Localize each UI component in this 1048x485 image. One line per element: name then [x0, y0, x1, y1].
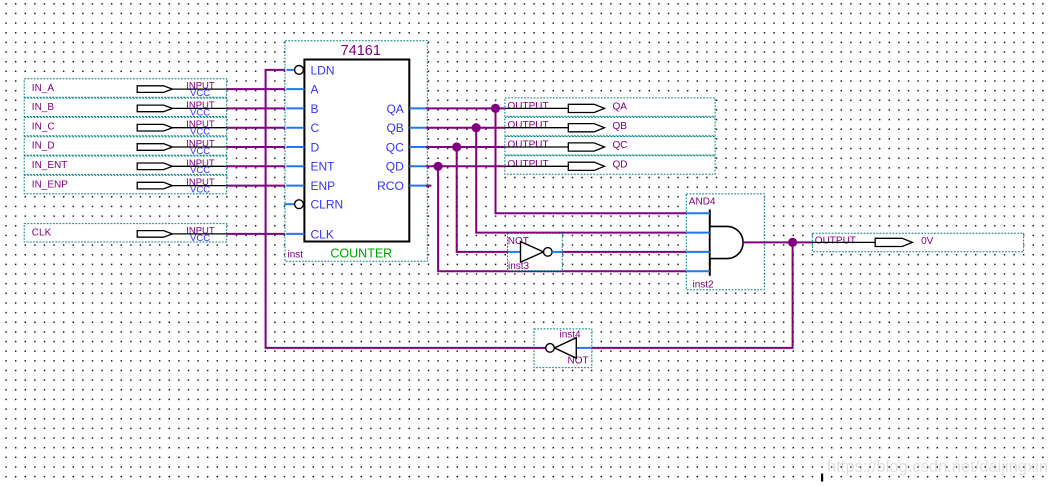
wire QB branch down	[476, 128, 686, 233]
svg-text:RCO: RCO	[377, 179, 404, 193]
pin QD	[386, 160, 426, 174]
inverter inst3 NOT block	[508, 234, 563, 271]
svg-text:VCC: VCC	[190, 88, 210, 99]
and-gate body	[710, 226, 743, 258]
svg-text:VCC: VCC	[190, 233, 210, 244]
pin CLRN	[284, 198, 343, 212]
pin B	[286, 102, 318, 116]
svg-text:OUTPUT: OUTPUT	[508, 101, 549, 112]
svg-text:C: C	[311, 121, 320, 135]
pin LDN	[286, 63, 334, 77]
svg-text:IN_D: IN_D	[32, 141, 55, 152]
svg-text:QD: QD	[613, 160, 628, 171]
inverter inst3 input stub	[508, 251, 521, 253]
wire QC to OUTPUT QC	[426, 146, 505, 148]
pin QB	[386, 121, 426, 135]
input pin IN_ENT	[24, 156, 227, 176]
svg-text:0V: 0V	[921, 236, 934, 247]
svg-text:QA: QA	[386, 102, 403, 116]
counter U 74161 block	[285, 41, 427, 261]
pin C	[286, 121, 319, 135]
input pin CLK	[24, 224, 227, 244]
wire node LDN net (inst4 output to LDN)	[266, 70, 546, 348]
svg-text:IN_A: IN_A	[32, 83, 55, 94]
svg-text:74161: 74161	[341, 43, 381, 59]
svg-text:A: A	[311, 83, 319, 97]
text cursor	[821, 474, 823, 482]
pin ENT	[286, 160, 335, 174]
svg-text:ENT: ENT	[311, 160, 336, 174]
wire AND4 output to OUTPUT 0V	[743, 241, 812, 243]
svg-text:LDN: LDN	[311, 63, 335, 77]
wire QA branch down	[496, 108, 687, 213]
svg-text:COUNTER: COUNTER	[330, 246, 392, 260]
svg-text:AND4: AND4	[689, 196, 716, 207]
inverter inst4 triangle	[555, 338, 577, 358]
and-gate input stub 1	[686, 212, 710, 214]
output pin QD	[505, 156, 715, 175]
input pin IN_D	[24, 137, 227, 157]
wire IN to pin ENT	[227, 165, 287, 167]
pin A	[286, 83, 318, 97]
wire RCO stub	[426, 185, 431, 187]
pin ENP	[286, 179, 335, 193]
wire QA to OUTPUT QA	[426, 107, 505, 109]
svg-text:NOT: NOT	[568, 356, 589, 367]
svg-text:OUTPUT: OUTPUT	[815, 236, 856, 247]
pin D	[286, 140, 319, 154]
svg-text:OUTPUT: OUTPUT	[508, 120, 549, 131]
pin QA	[386, 102, 426, 116]
output pin 0V	[812, 233, 1023, 252]
inverter inst4 input stub	[576, 347, 592, 349]
junction node QA	[491, 104, 500, 113]
wire into inst4 box	[534, 347, 546, 349]
wire QD branch down	[438, 166, 686, 271]
input pin IN_B	[24, 98, 227, 118]
wire IN to pin A	[227, 88, 287, 90]
wire IN to pin B	[227, 107, 287, 109]
svg-text:QB: QB	[386, 121, 403, 135]
wire QC branch down	[457, 147, 508, 252]
svg-text:QD: QD	[386, 160, 404, 174]
svg-text:QC: QC	[386, 140, 404, 154]
output pin QA	[505, 98, 715, 117]
inverter inst4 NOT block	[534, 329, 592, 368]
and-gate input bar	[709, 210, 711, 276]
svg-text:OUTPUT: OUTPUT	[508, 140, 549, 151]
svg-text:VCC: VCC	[190, 127, 210, 138]
output pin QC	[505, 137, 715, 156]
svg-text:QC: QC	[613, 140, 628, 151]
junction node 0V	[788, 238, 797, 247]
and-gate input stub 4	[686, 270, 710, 272]
inverter inst3 bubble	[544, 248, 553, 257]
junction node QC	[452, 142, 461, 151]
svg-text:VCC: VCC	[190, 185, 210, 196]
svg-text:VCC: VCC	[190, 146, 210, 157]
svg-text:IN_ENP: IN_ENP	[32, 179, 68, 190]
svg-text:inst4: inst4	[560, 330, 582, 341]
svg-text:inst: inst	[288, 249, 304, 260]
svg-text:IN_B: IN_B	[32, 102, 55, 113]
wire NOT inst3 output to AND4	[562, 251, 686, 253]
output pin QB	[505, 117, 715, 136]
input pin IN_C	[24, 117, 227, 137]
pin RCO	[377, 179, 426, 193]
inverter inst3 triangle	[521, 242, 544, 263]
svg-text:ENP: ENP	[311, 179, 336, 193]
inverter inst4 bubble	[546, 344, 555, 353]
and-gate output stub	[743, 241, 765, 243]
wire IN to pin C	[227, 127, 287, 129]
svg-text:QB: QB	[613, 121, 628, 132]
and-gate inst2 AND4 block	[686, 194, 764, 290]
wire IN to pin CLK	[227, 233, 287, 235]
pin QC	[386, 140, 426, 154]
junction node QD	[434, 162, 443, 171]
svg-text:inst2: inst2	[693, 279, 715, 290]
and-gate input stub 3	[686, 251, 710, 253]
svg-text:IN_C: IN_C	[32, 121, 55, 132]
svg-text:B: B	[311, 102, 319, 116]
input pin IN_A	[24, 79, 227, 99]
wire QB to OUTPUT QB	[426, 127, 505, 129]
svg-text:CLK: CLK	[311, 227, 334, 241]
junction node QB	[472, 123, 481, 132]
wire 0V net down to NOT inst4 input	[592, 242, 793, 348]
wire IN to pin D	[227, 146, 287, 148]
svg-text:inst3: inst3	[508, 261, 530, 272]
svg-text:CLRN: CLRN	[311, 198, 344, 212]
pin CLK	[286, 227, 334, 241]
and-gate input stub 2	[686, 232, 710, 234]
svg-text:OUTPUT: OUTPUT	[508, 159, 549, 170]
inverter inst3 output stub	[552, 251, 562, 253]
wire QD to OUTPUT QD	[426, 165, 505, 167]
svg-text:D: D	[311, 140, 320, 154]
svg-text:VCC: VCC	[190, 165, 210, 176]
svg-text:CLK: CLK	[32, 228, 52, 239]
svg-text:IN_ENT: IN_ENT	[32, 160, 68, 171]
counter body box	[304, 60, 409, 242]
svg-text:VCC: VCC	[190, 107, 210, 118]
wire IN to pin ENP	[227, 185, 287, 187]
input pin IN_ENP	[24, 175, 227, 195]
svg-text:QA: QA	[613, 102, 628, 113]
